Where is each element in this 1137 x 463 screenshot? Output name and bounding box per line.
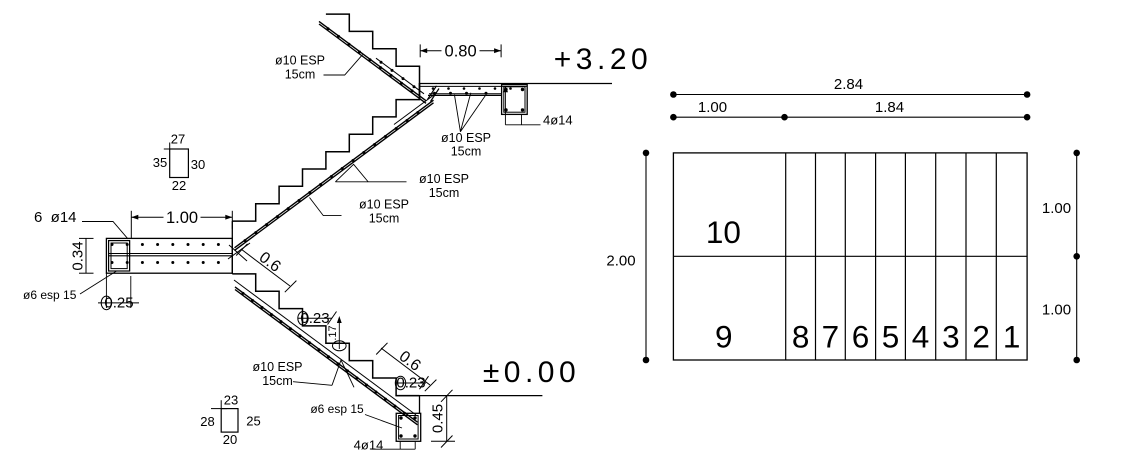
+3.20 floor level line [420,83,613,85]
svg-text:8: 8 [792,319,810,355]
svg-text:±0.00: ±0.00 [483,356,580,389]
svg-text:15cm: 15cm [262,374,293,388]
svg-text:1.00: 1.00 [1042,200,1071,217]
svg-text:1.00: 1.00 [698,99,727,116]
top landing bottom rebar line [429,93,502,95]
dimension 1.00 (mid landing) [130,211,132,239]
dimension 2.00 (left) [645,153,647,360]
dimension 0.23 (second) [396,382,426,384]
svg-text:0.23: 0.23 [396,375,425,392]
svg-text:0.45: 0.45 [430,404,447,433]
mid landing middle rebar double line [108,253,232,255]
dimension 0.23 (first) [298,317,332,319]
mini riser dimension 17 [338,318,340,349]
svg-text:15cm: 15cm [285,68,316,82]
svg-text:9: 9 [715,319,733,355]
bent bar into top landing [428,86,437,100]
svg-text:30: 30 [191,157,205,172]
svg-text:ø10 ESP: ø10 ESP [359,198,409,212]
dimension 0.34 (landing thickness) [85,238,87,273]
dimension 0.80 [419,44,421,57]
svg-text:0.34: 0.34 [70,241,87,270]
riser to bottom beam [419,396,421,414]
lower flight slab soffit (double line) [235,287,418,422]
leader 4Ø14 bottom [399,441,401,449]
dimension 0.6 (first, on lower flight) [241,249,290,286]
svg-text:27: 27 [171,132,185,147]
leader (middle flight lower) [310,198,342,216]
top beam outline [502,85,528,115]
leader 6 Ø14 [82,222,128,240]
svg-text:.17: .17 [327,325,339,340]
dimension 1.00/1.00 (right) [1076,153,1078,360]
svg-text:3: 3 [942,319,960,355]
top flight steps outline [326,14,420,99]
dimension 0.45 (bottom right) [446,396,448,442]
svg-text:4: 4 [912,319,930,355]
bottom beam outline [396,413,421,441]
bent bar crossing at mid landing edge [228,243,250,259]
svg-text:28: 28 [200,414,214,429]
svg-text:15cm: 15cm [451,145,482,159]
mid landing slab outline [106,238,232,273]
middle flight distribution bar dots [244,239,247,242]
svg-text:15cm: 15cm [369,212,400,226]
leader Ø6 esp 15 bottom [365,415,402,429]
dimension 1.00 / 1.84 [673,116,1027,118]
leader (top flight label) [324,55,363,75]
svg-text:0.80: 0.80 [445,43,477,61]
lower flight top rebar line [234,280,416,415]
beam right edge double line [129,241,131,271]
mid landing left beam stirrup [109,241,130,271]
svg-text:4ø14: 4ø14 [354,438,384,453]
svg-text:ø10 ESP: ø10 ESP [275,54,325,68]
svg-text:1.00: 1.00 [1042,302,1071,319]
svg-text:4ø14: 4ø14 [543,113,573,128]
lower flight steps outline [232,274,419,396]
mid landing bottom bar dots [111,261,114,264]
svg-text:23: 23 [224,392,238,407]
leader Ø6 esp 15 mid [80,271,117,294]
bottom beam corner bars [399,416,402,419]
±0.00 floor level line [396,395,542,397]
plan middle horizontal line [673,255,1027,257]
svg-text:6: 6 [852,319,870,355]
plan step division lines [785,153,787,360]
leader with flag (middle flight) [335,181,406,183]
top beam corner bars [504,88,507,91]
svg-text:ø6 esp 15: ø6 esp 15 [23,288,77,302]
middle flight upper rebar line [394,93,436,124]
svg-text:2.00: 2.00 [606,253,635,270]
svg-text:6 ø14: 6 ø14 [34,209,77,226]
svg-text:0.25: 0.25 [104,295,133,312]
svg-text:2.84: 2.84 [834,76,863,93]
middle flight slab soffit (double line) [235,100,434,248]
middle flight steps outline [232,83,419,221]
riser line at top landing edge [419,84,421,100]
top flight distribution bar dots [327,27,330,30]
svg-text:1.00: 1.00 [166,209,198,227]
svg-text:15cm: 15cm [429,186,460,200]
mid landing top bar dots [111,243,114,246]
detail section rectangle (top, 35x30) [170,149,189,178]
svg-text:22: 22 [172,178,186,193]
svg-text:+3.20: +3.20 [554,43,652,76]
dimension 2.84 [673,94,1027,96]
svg-text:7: 7 [822,319,840,355]
svg-text:1.84: 1.84 [875,99,904,116]
bottom beam stirrup [399,416,419,440]
top beam stirrup [504,87,525,112]
landing edge vertical at mid landing [231,221,233,274]
leader 4Ø14 top [504,89,506,125]
svg-text:1: 1 [1003,319,1021,355]
svg-text:5: 5 [882,319,900,355]
leader with flag (lower flight) [293,382,332,386]
plan outline [673,153,1027,360]
top landing top bar dots [432,87,435,90]
svg-text:35: 35 [153,155,167,170]
lower flight distribution bar dots [242,292,245,295]
detail section rectangle (bottom, 28x25) [221,409,238,433]
top flight upper rebar line [376,58,424,94]
svg-text:10: 10 [706,214,741,250]
svg-text:0.23: 0.23 [300,310,329,327]
svg-text:ø6 esp 15: ø6 esp 15 [310,402,364,416]
top landing slab second line [420,85,528,87]
svg-text:25: 25 [246,413,260,428]
svg-text:ø10 ESP: ø10 ESP [441,131,491,145]
svg-text:20: 20 [223,432,237,447]
svg-text:ø10 ESP: ø10 ESP [252,360,302,374]
svg-text:ø10 ESP: ø10 ESP [419,172,469,186]
svg-text:2: 2 [972,319,990,355]
top landing soffit line [428,94,502,96]
dimension 0.25 (beam width) [105,273,107,308]
top flight slab soffit (double line) [319,21,426,100]
fan leader lines [454,95,460,132]
dimension 0.6 (second) [381,348,430,385]
